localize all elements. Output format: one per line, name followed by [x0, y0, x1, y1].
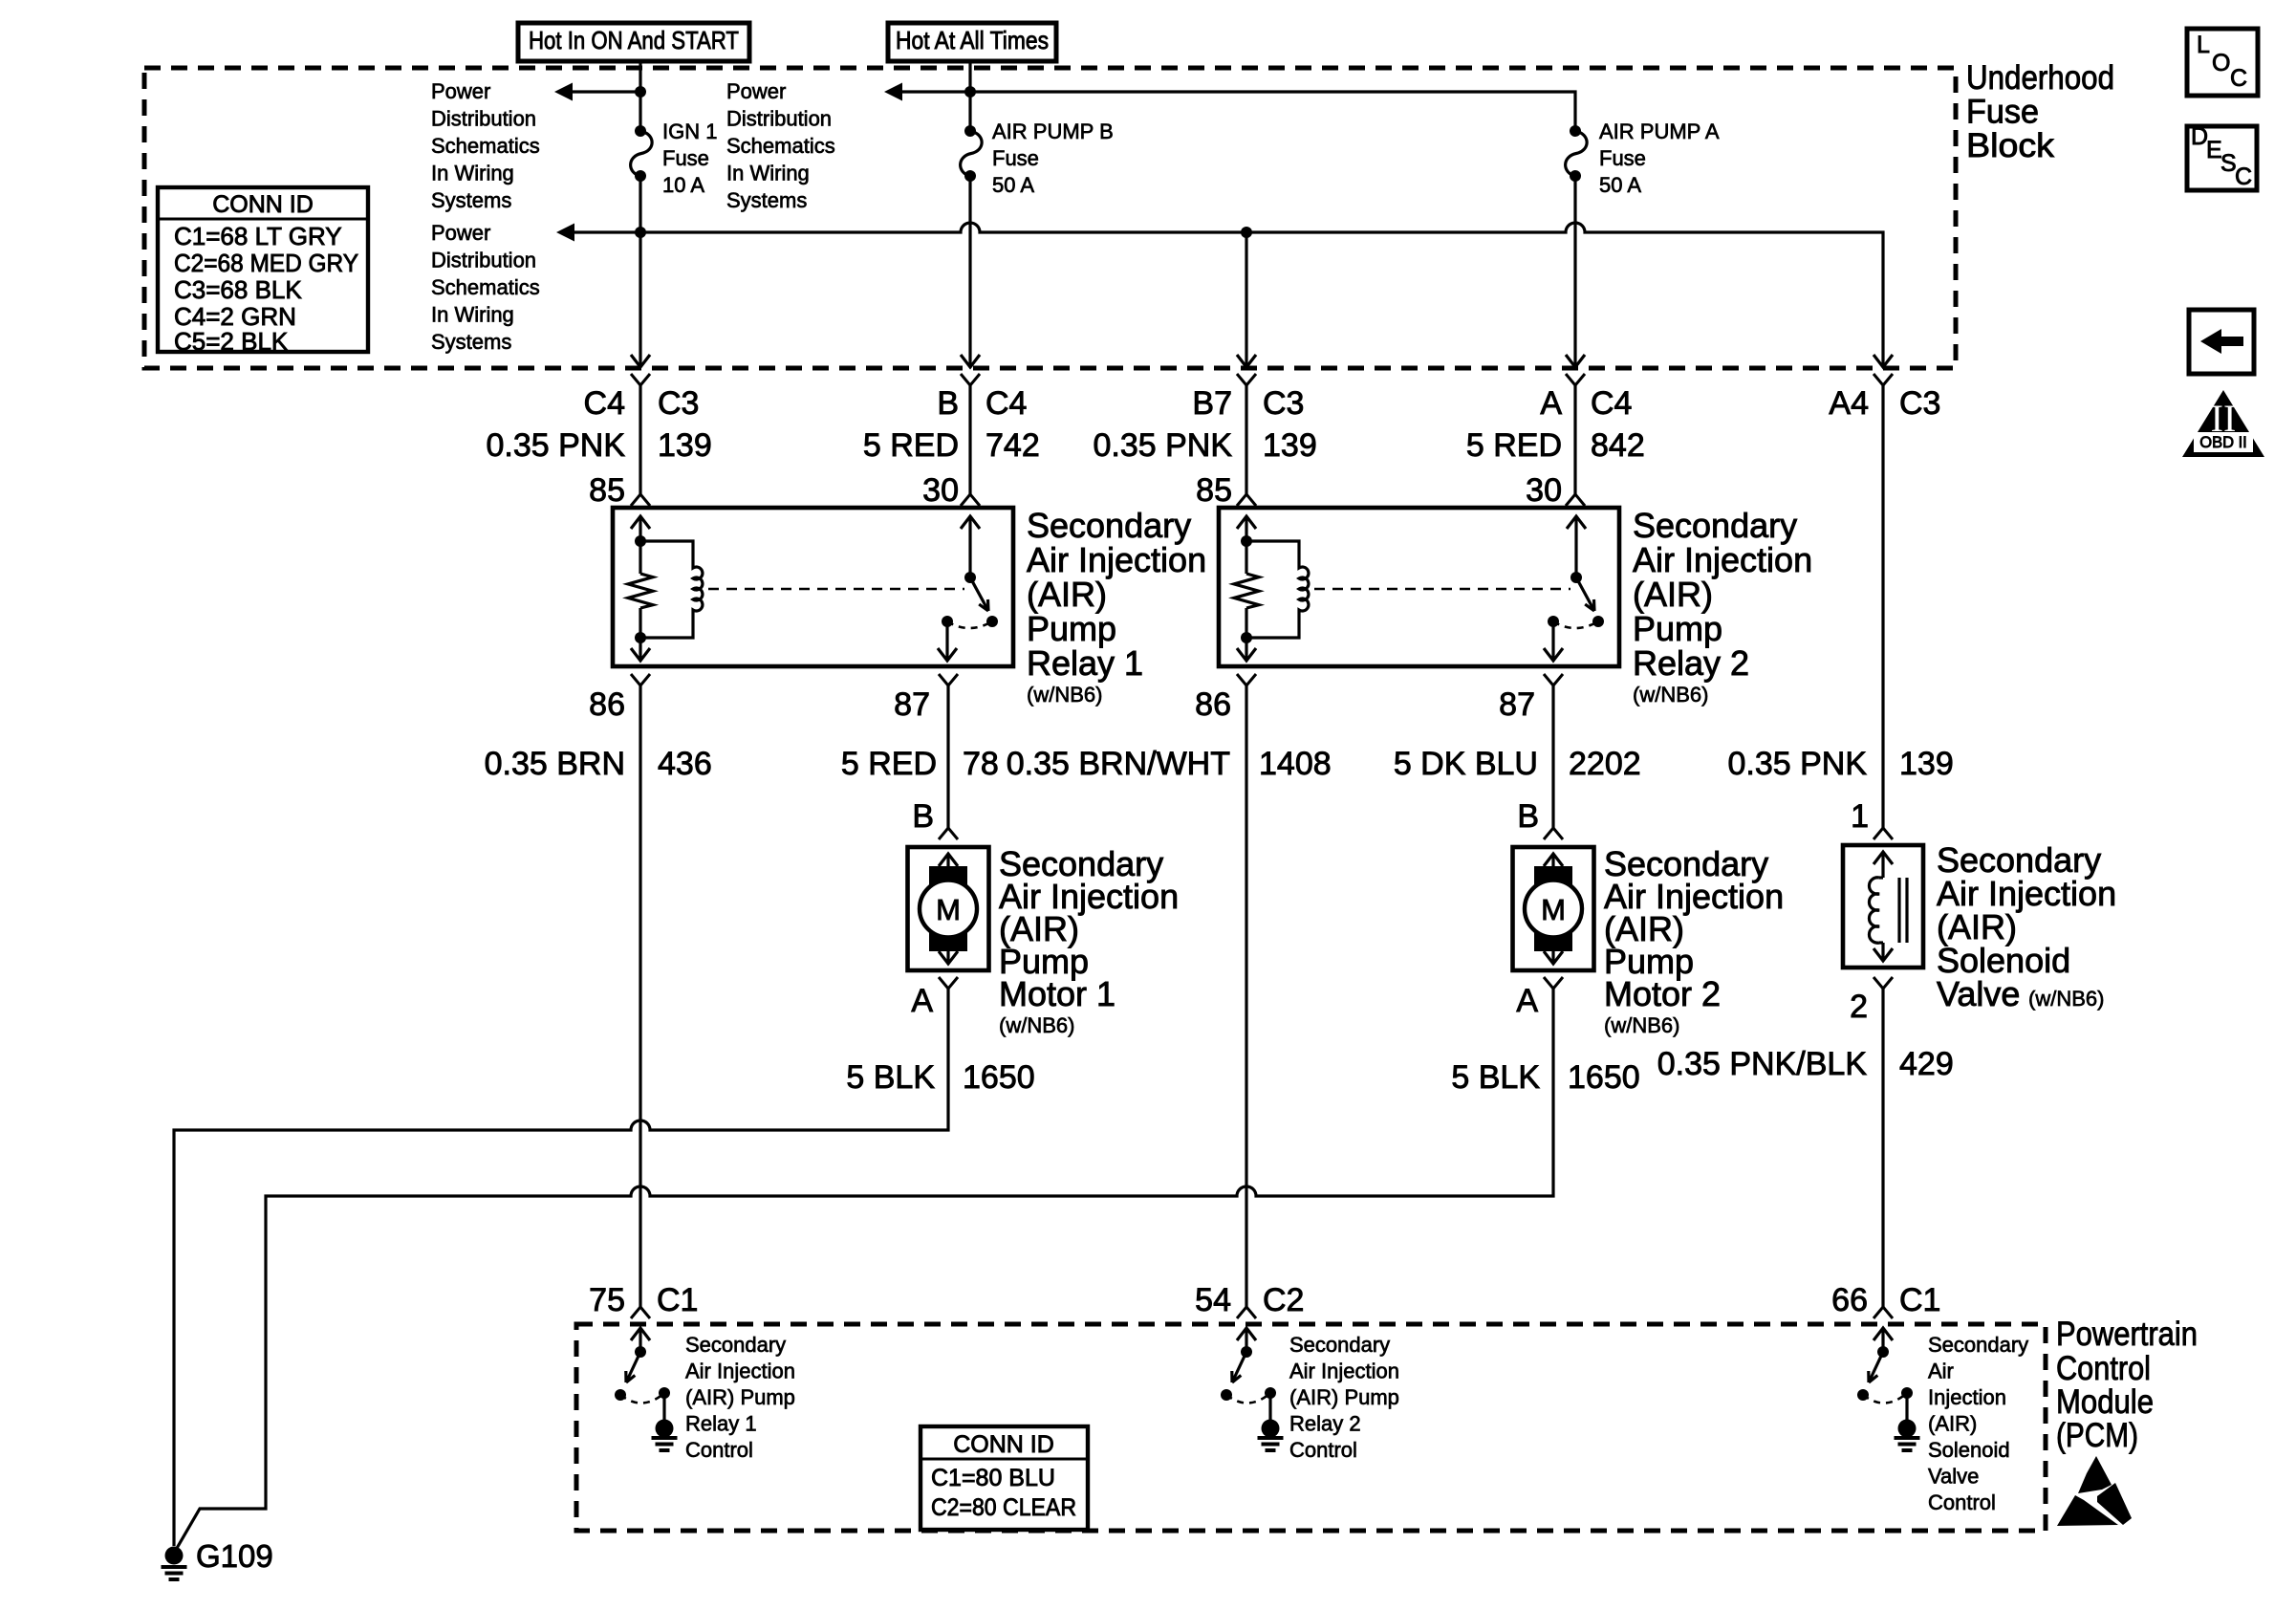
fuse AIR PUMP A	[1570, 125, 1581, 137]
connector at relay 2 pin 30	[1566, 494, 1585, 506]
wire: 0.35 PNK 139 down right side to solenoid valve	[1881, 385, 1884, 828]
connector C3/C4 at fuse block exit (bus/relay2-85)	[1237, 374, 1256, 385]
svg-text:Solenoid: Solenoid	[1928, 1438, 2010, 1462]
svg-text:Pump: Pump	[1633, 609, 1722, 648]
svg-text:436: 436	[658, 746, 712, 782]
svg-text:50 A: 50 A	[992, 173, 1034, 197]
wire: 0.35 PNK 139 to relay 2 pin 85	[1245, 385, 1247, 494]
svg-text:842: 842	[1591, 427, 1645, 464]
powertrain control module dashed outline	[576, 1324, 2046, 1531]
wire: 5 BLK 1650 motor 2 ground run to G109	[176, 989, 1553, 1550]
wire: IGN 1 output bus to the right with hops over pump feeds	[640, 223, 1883, 367]
svg-text:1: 1	[1851, 798, 1869, 835]
svg-text:(AIR): (AIR)	[1928, 1412, 1977, 1436]
wire: 0.35 BRN 436 relay 1 pin 86 to PCM pin 75	[639, 685, 641, 1307]
svg-text:Schematics: Schematics	[431, 134, 540, 158]
svg-text:0.35 PNK/BLK: 0.35 PNK/BLK	[1657, 1046, 1868, 1082]
ground G109	[165, 1547, 184, 1565]
svg-text:(w/NB6): (w/NB6)	[1633, 683, 1708, 707]
reference arrow left (power distribution, battery feed)	[884, 83, 902, 101]
svg-text:85: 85	[1196, 472, 1232, 509]
svg-text:Secondary: Secondary	[1633, 506, 1797, 545]
svg-text:C2=80 CLEAR: C2=80 CLEAR	[931, 1494, 1076, 1521]
svg-text:C1=80 BLU: C1=80 BLU	[931, 1465, 1055, 1491]
PCM driver switch: AIR pump relay 2 control	[1237, 1328, 1256, 1340]
icon: OBD II triangle	[2182, 390, 2264, 457]
svg-text:Control: Control	[1928, 1490, 1996, 1514]
svg-text:C4: C4	[1591, 385, 1632, 422]
wire: 5 DK BLU 2202 relay 2 pin 87 to pump motor 2	[1551, 685, 1554, 828]
power source label box: Hot In ON And START	[518, 23, 749, 61]
svg-text:CONN ID: CONN ID	[953, 1431, 1054, 1458]
svg-text:CONN ID: CONN ID	[212, 191, 314, 218]
connector C1 at PCM pin 75	[631, 1307, 650, 1318]
PCM driver switch: AIR pump relay 1 control	[631, 1328, 650, 1340]
connector C3/C4 at fuse block exit (AirPumpB/relay1-30)	[961, 374, 980, 385]
svg-text:(w/NB6): (w/NB6)	[2028, 987, 2104, 1011]
svg-text:O: O	[2212, 50, 2230, 76]
svg-text:(AIR): (AIR)	[1633, 575, 1713, 614]
svg-text:Secondary: Secondary	[1027, 506, 1191, 545]
junction dot IGN 1 bus to relay 2 coil branch	[1241, 227, 1252, 238]
svg-text:Relay 1: Relay 1	[1027, 643, 1143, 683]
wire: Hot At All Times feed down to AIR PUMP B fuse	[968, 61, 971, 131]
svg-text:C4: C4	[986, 385, 1027, 422]
svg-text:C: C	[2235, 163, 2252, 190]
wire: 5 RED 742 to relay 1 pin 30	[968, 385, 971, 494]
svg-text:10 A: 10 A	[662, 173, 704, 197]
svg-text:85: 85	[589, 472, 625, 509]
svg-text:1650: 1650	[1568, 1059, 1640, 1096]
svg-text:B7: B7	[1192, 385, 1232, 422]
connector C3/C4 at fuse block exit (IGN1/relay1-85)	[631, 374, 650, 385]
svg-text:5 BLK: 5 BLK	[1451, 1059, 1540, 1096]
svg-text:Systems: Systems	[431, 330, 511, 354]
svg-text:Motor 1: Motor 1	[999, 974, 1116, 1013]
svg-text:C3: C3	[658, 385, 699, 422]
svg-text:A: A	[911, 983, 933, 1019]
connector at relay 2 pin 86	[1237, 674, 1256, 685]
svg-text:B: B	[912, 798, 934, 835]
wire: 0.35 PNK 139 to relay 1 pin 85	[639, 385, 641, 494]
svg-text:75: 75	[589, 1282, 625, 1318]
junction dot IGN 1 output bus	[635, 227, 646, 238]
fuse IGN 1	[635, 125, 646, 137]
svg-text:(AIR): (AIR)	[1027, 575, 1107, 614]
svg-text:0.35 BRN: 0.35 BRN	[485, 746, 625, 782]
connector ID table (fuse block)	[158, 187, 368, 352]
svg-text:Air Injection: Air Injection	[1027, 540, 1206, 579]
connector A at pump motor 2	[1544, 977, 1563, 989]
pin arrow down at fuse block exit (IGN1/relay1-85)	[631, 355, 650, 367]
svg-text:Motor 2: Motor 2	[1604, 974, 1721, 1013]
svg-text:C3: C3	[1263, 385, 1304, 422]
svg-text:139: 139	[658, 427, 712, 464]
connector at relay 1 pin 86	[631, 674, 650, 685]
svg-text:87: 87	[894, 686, 930, 723]
svg-text:Control: Control	[1289, 1438, 1357, 1462]
svg-text:Hot At All Times: Hot At All Times	[896, 26, 1049, 54]
svg-text:5 DK BLU: 5 DK BLU	[1394, 746, 1538, 782]
svg-text:(w/NB6): (w/NB6)	[999, 1013, 1074, 1037]
svg-text:A: A	[1516, 983, 1538, 1019]
svg-text:(AIR) Pump: (AIR) Pump	[685, 1385, 795, 1409]
icon: LOC box	[2187, 29, 2258, 96]
connector ID table (PCM)	[921, 1426, 1088, 1530]
svg-text:C1: C1	[657, 1282, 698, 1318]
svg-text:Schematics: Schematics	[726, 134, 835, 158]
connector C2 at PCM pin 54	[1237, 1307, 1256, 1318]
svg-text:A: A	[1540, 385, 1562, 422]
svg-text:Control: Control	[685, 1438, 753, 1462]
svg-text:Module: Module	[2056, 1383, 2154, 1421]
motor M1: Secondary Air Injection (AIR) Pump Motor 1	[908, 847, 989, 970]
svg-text:(w/NB6): (w/NB6)	[1604, 1013, 1679, 1037]
svg-text:Hot In ON And START: Hot In ON And START	[529, 26, 739, 54]
svg-text:Block: Block	[1966, 127, 2055, 164]
svg-text:0.35 BRN/WHT: 0.35 BRN/WHT	[1007, 746, 1230, 782]
connector C1 at PCM pin 66	[1874, 1307, 1893, 1318]
svg-text:Control: Control	[2056, 1350, 2151, 1387]
wire: AIR PUMP A fuse output down	[1573, 176, 1576, 367]
connector at relay 1 pin 30	[961, 494, 980, 506]
icon: DESC box	[2187, 126, 2257, 190]
svg-text:Distribution: Distribution	[431, 249, 536, 272]
underhood fuse block dashed outline	[144, 68, 1956, 368]
wire: 5 RED 78 relay 1 pin 87 to pump motor 1	[946, 685, 949, 828]
svg-text:Power: Power	[431, 221, 490, 245]
svg-text:Secondary: Secondary	[1289, 1333, 1390, 1357]
connector 2 at solenoid valve	[1874, 977, 1893, 989]
svg-text:Fuse: Fuse	[1966, 94, 2039, 131]
svg-text:Fuse: Fuse	[662, 146, 709, 170]
connector B at pump motor 2	[1544, 828, 1563, 839]
svg-text:87: 87	[1499, 686, 1535, 723]
svg-text:5 RED: 5 RED	[841, 746, 937, 782]
svg-text:742: 742	[986, 427, 1040, 464]
svg-text:In Wiring: In Wiring	[431, 162, 514, 185]
svg-text:Valve: Valve	[1928, 1465, 1979, 1489]
svg-text:1650: 1650	[963, 1059, 1035, 1096]
svg-text:C1: C1	[1899, 1282, 1940, 1318]
svg-text:Relay 2: Relay 2	[1289, 1412, 1361, 1436]
wire: 5 BLK 1650 motor 1 ground run to G109	[174, 989, 948, 1546]
svg-text:Fuse: Fuse	[992, 146, 1039, 170]
svg-text:0.35 PNK: 0.35 PNK	[1727, 746, 1867, 782]
svg-text:(w/NB6): (w/NB6)	[1027, 683, 1102, 707]
svg-text:5 RED: 5 RED	[1466, 427, 1562, 464]
pin arrow down at fuse block exit (bus/solenoid)	[1874, 355, 1893, 367]
wire: battery feed across to AIR PUMP A fuse	[970, 92, 1575, 131]
svg-text:0.35 PNK: 0.35 PNK	[486, 427, 625, 464]
svg-text:30: 30	[922, 472, 959, 509]
connector C3/C4 at fuse block exit (AirPumpA/relay2-30)	[1566, 374, 1585, 385]
svg-text:Pump: Pump	[1027, 609, 1116, 648]
power source label box: Hot At All Times	[888, 23, 1056, 61]
svg-text:30: 30	[1526, 472, 1562, 509]
svg-text:1408: 1408	[1259, 746, 1332, 782]
svg-text:C1=68 LT GRY: C1=68 LT GRY	[174, 222, 342, 250]
svg-text:G109: G109	[196, 1538, 273, 1574]
wire: Hot In ON And START feed down to IGN 1 fuse	[639, 61, 641, 131]
svg-text:B: B	[1517, 798, 1539, 835]
svg-text:0.35 PNK: 0.35 PNK	[1093, 427, 1232, 464]
svg-text:C2: C2	[1263, 1282, 1304, 1318]
connector C3/C4 at fuse block exit (bus/solenoid)	[1874, 374, 1893, 385]
svg-text:C2=68 MED GRY: C2=68 MED GRY	[174, 249, 358, 277]
svg-text:2: 2	[1850, 989, 1868, 1025]
svg-text:Valve: Valve	[1937, 974, 2020, 1013]
svg-text:Secondary: Secondary	[1928, 1333, 2028, 1357]
connector A at pump motor 1	[939, 977, 958, 989]
svg-text:Schematics: Schematics	[431, 275, 540, 299]
svg-text:C3=68 BLK: C3=68 BLK	[174, 275, 302, 304]
svg-text:Systems: Systems	[726, 188, 807, 212]
svg-text:5 BLK: 5 BLK	[846, 1059, 935, 1096]
svg-text:Distribution: Distribution	[726, 107, 832, 131]
svg-text:Power: Power	[726, 79, 786, 103]
svg-text:In Wiring: In Wiring	[726, 162, 810, 185]
svg-text:Relay 1: Relay 1	[685, 1412, 757, 1436]
svg-text:AIR PUMP A: AIR PUMP A	[1599, 120, 1720, 143]
svg-text:Systems: Systems	[431, 188, 511, 212]
icon: back arrow box	[2189, 310, 2254, 374]
motor M2: Secondary Air Injection (AIR) Pump Motor 2	[1513, 847, 1594, 970]
svg-text:M: M	[936, 893, 961, 926]
svg-text:IGN 1: IGN 1	[662, 120, 717, 143]
svg-text:Distribution: Distribution	[431, 107, 536, 131]
svg-text:86: 86	[589, 686, 625, 723]
pin arrow down at fuse block exit (AirPumpA/relay2-30)	[1566, 355, 1585, 367]
junction dot at IGN 1 feed tap	[635, 86, 646, 98]
svg-text:5 RED: 5 RED	[863, 427, 959, 464]
relay K2: Secondary Air Injection (AIR) Pump Relay 2	[1219, 508, 1619, 666]
svg-text:86: 86	[1195, 686, 1231, 723]
svg-text:M: M	[1541, 893, 1566, 926]
connector at relay 2 pin 85	[1237, 494, 1256, 506]
PCM driver switch: AIR solenoid valve control	[1874, 1328, 1893, 1340]
connector at relay 2 pin 87	[1544, 674, 1563, 685]
pin arrow down at fuse block exit (AirPumpB/relay1-30)	[961, 355, 980, 367]
svg-text:C3: C3	[1899, 385, 1940, 422]
svg-text:Fuse: Fuse	[1599, 146, 1646, 170]
wire: 0.35 BRN/WHT 1408 relay 2 pin 86 to PCM pin 54	[1245, 685, 1247, 1307]
svg-text:139: 139	[1899, 746, 1954, 782]
pin arrow down at fuse block exit (bus/relay2-85)	[1237, 355, 1256, 367]
fuse AIR PUMP B	[964, 125, 976, 137]
connector B at pump motor 1	[939, 828, 958, 839]
svg-text:Air Injection: Air Injection	[685, 1360, 795, 1383]
svg-text:429: 429	[1899, 1046, 1954, 1082]
svg-text:Injection: Injection	[1928, 1385, 2006, 1409]
svg-text:139: 139	[1263, 427, 1317, 464]
svg-text:C4: C4	[584, 385, 625, 422]
svg-text:Air: Air	[1928, 1360, 1954, 1383]
reference arrow left (IGN 1 output)	[556, 224, 574, 242]
svg-text:Underhood: Underhood	[1966, 59, 2114, 97]
wire: AIR PUMP B fuse output down	[968, 176, 971, 367]
svg-text:OBD II: OBD II	[2199, 434, 2247, 451]
svg-text:Power: Power	[431, 79, 490, 103]
reference arrow left (power distribution, IGN 1 feed)	[554, 83, 573, 101]
svg-text:Relay 2: Relay 2	[1633, 643, 1749, 683]
svg-text:Air Injection: Air Injection	[1633, 540, 1812, 579]
junction dot at Hot At All Times tap	[964, 86, 976, 98]
connector at relay 1 pin 85	[631, 494, 650, 506]
svg-text:66: 66	[1831, 1282, 1868, 1318]
wire: IGN 1 fuse output down through fuse block	[639, 176, 641, 367]
connector at relay 1 pin 87	[939, 674, 958, 685]
solenoid L1: Secondary Air Injection (AIR) Solenoid Valve	[1843, 845, 1923, 968]
svg-text:C5=2 BLK: C5=2 BLK	[174, 327, 289, 356]
svg-text:54: 54	[1195, 1282, 1231, 1318]
svg-text:B: B	[937, 385, 959, 422]
icon: ESD warning triangle	[2078, 1456, 2112, 1493]
svg-text:(AIR) Pump: (AIR) Pump	[1289, 1385, 1399, 1409]
svg-text:50 A: 50 A	[1599, 173, 1641, 197]
relay K1: Secondary Air Injection (AIR) Pump Relay 1	[613, 508, 1013, 666]
connector 1 at solenoid valve	[1874, 828, 1893, 839]
svg-text:AIR PUMP B: AIR PUMP B	[992, 120, 1114, 143]
wire: 5 RED 842 to relay 2 pin 30	[1573, 385, 1576, 494]
svg-text:In Wiring: In Wiring	[431, 303, 514, 327]
wire: 0.35 PNK/BLK 429 solenoid valve pin 2 to PCM pin 66	[1881, 989, 1884, 1307]
svg-text:Secondary: Secondary	[685, 1333, 786, 1357]
svg-text:(PCM): (PCM)	[2056, 1417, 2138, 1454]
svg-text:A4: A4	[1829, 385, 1869, 422]
svg-text:Powertrain: Powertrain	[2056, 1316, 2198, 1353]
svg-text:Air Injection: Air Injection	[1289, 1360, 1399, 1383]
svg-text:2202: 2202	[1569, 746, 1641, 782]
svg-text:L: L	[2197, 32, 2210, 58]
svg-text:C: C	[2230, 65, 2247, 92]
svg-text:78: 78	[963, 746, 999, 782]
wire: relay 2 coil feed down from bus	[1245, 232, 1247, 367]
